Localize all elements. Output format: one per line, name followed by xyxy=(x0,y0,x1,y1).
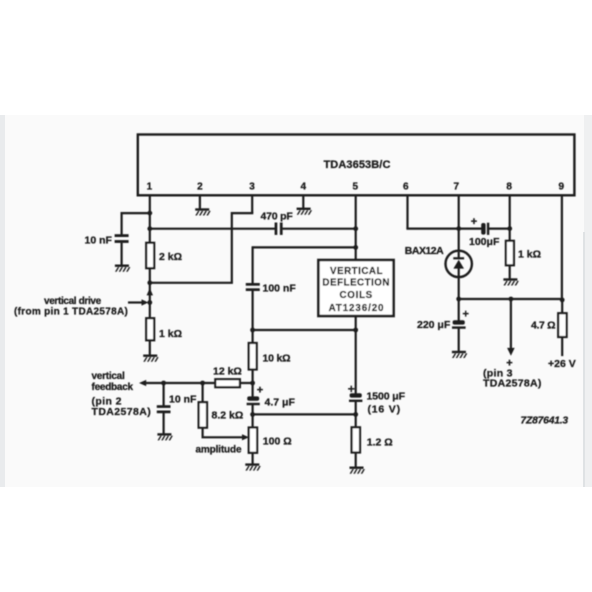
svg-text:feedback: feedback xyxy=(92,382,134,393)
svg-text:4: 4 xyxy=(301,182,307,193)
svg-text:10 nF: 10 nF xyxy=(85,235,113,247)
svg-text:7: 7 xyxy=(454,182,460,193)
svg-text:8.2 kΩ: 8.2 kΩ xyxy=(212,410,244,422)
svg-text:12 kΩ: 12 kΩ xyxy=(213,366,242,378)
svg-text:TDA2578A): TDA2578A) xyxy=(483,378,542,390)
svg-text:vertical drive: vertical drive xyxy=(44,296,102,307)
svg-text:8: 8 xyxy=(506,182,512,193)
svg-text:TDA3653B/C: TDA3653B/C xyxy=(323,159,390,171)
svg-text:vertical: vertical xyxy=(92,371,125,382)
svg-text:100 nF: 100 nF xyxy=(263,283,297,295)
svg-text:1 kΩ: 1 kΩ xyxy=(518,249,541,261)
svg-text:+: + xyxy=(257,385,263,397)
svg-text:amplitude: amplitude xyxy=(196,445,242,456)
svg-text:2: 2 xyxy=(197,182,203,193)
svg-text:+: + xyxy=(506,358,512,370)
svg-text:3: 3 xyxy=(249,182,255,193)
svg-text:AT1236/20: AT1236/20 xyxy=(329,303,385,314)
svg-text:+: + xyxy=(348,382,355,396)
svg-text:4.7 Ω: 4.7 Ω xyxy=(531,320,555,332)
svg-text:4.7 μF: 4.7 μF xyxy=(265,397,296,409)
svg-text:(from pin 1 TDA2578A): (from pin 1 TDA2578A) xyxy=(14,307,128,318)
svg-text:1 kΩ: 1 kΩ xyxy=(159,328,182,340)
svg-text:1500 μF: 1500 μF xyxy=(367,391,406,403)
svg-text:1.2 Ω: 1.2 Ω xyxy=(367,437,393,449)
svg-text:1: 1 xyxy=(147,182,153,193)
svg-text:100 Ω: 100 Ω xyxy=(263,436,292,448)
svg-text:470 pF: 470 pF xyxy=(261,211,294,223)
svg-text:+: + xyxy=(471,216,477,228)
svg-text:5: 5 xyxy=(353,182,359,193)
svg-text:BAX12A: BAX12A xyxy=(405,245,444,257)
svg-text:7Z87641.3: 7Z87641.3 xyxy=(521,416,569,427)
svg-text:9: 9 xyxy=(559,182,565,193)
svg-text:TDA2578A): TDA2578A) xyxy=(92,406,152,418)
svg-text:220 μF: 220 μF xyxy=(417,319,451,331)
svg-text:10 kΩ: 10 kΩ xyxy=(263,353,291,365)
svg-text:+26 V: +26 V xyxy=(548,358,576,370)
svg-text:(16 V): (16 V) xyxy=(368,404,401,416)
svg-text:6: 6 xyxy=(403,182,409,193)
svg-text:DEFLECTION: DEFLECTION xyxy=(322,278,390,289)
svg-text:COILS: COILS xyxy=(339,290,372,301)
svg-text:VERTICAL: VERTICAL xyxy=(330,266,383,277)
svg-text:100μF: 100μF xyxy=(469,236,500,248)
svg-text:2 kΩ: 2 kΩ xyxy=(159,251,182,263)
svg-text:10 nF: 10 nF xyxy=(169,394,197,406)
svg-text:+: + xyxy=(462,309,468,321)
